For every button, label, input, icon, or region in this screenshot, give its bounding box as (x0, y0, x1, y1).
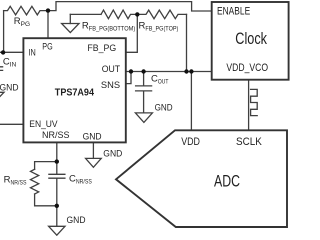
svg-text:GND: GND (67, 215, 86, 226)
svg-text:SCLK: SCLK (236, 136, 262, 148)
capacitor C_IN (cropped at left edge) (0, 67, 3, 71)
IC TPS7A94 block (23, 38, 125, 142)
svg-text:PG: PG (42, 41, 52, 52)
wire: Clock to ADC SCLK (248, 80, 250, 131)
node: NR/SS top junction (55, 159, 59, 163)
wire: FB_PG pin stub (126, 14, 138, 52)
svg-text:EN_UV: EN_UV (29, 119, 58, 130)
capacitor C_NR/SS (49, 162, 65, 206)
svg-text:VDD_VCO: VDD_VCO (226, 62, 268, 74)
svg-text:VDD: VDD (181, 136, 200, 148)
node: IN / C_IN junction (1, 50, 5, 54)
wire: SNS pin step (126, 72, 131, 84)
wire: OUT rail to Clock VDD_VCO (126, 71, 212, 73)
svg-text:GND: GND (0, 82, 19, 93)
wire: R_FB_PG(TOP) down to OUT rail (186, 14, 188, 71)
wire: PG node to Clock ENABLE (48, 2, 212, 11)
svg-text:SNS: SNS (101, 80, 120, 91)
svg-text:GND: GND (155, 102, 173, 113)
svg-text:GND: GND (103, 148, 122, 159)
wire: parallel combo top link (35, 162, 57, 170)
wire: TPS7A94 GND pin drop (92, 142, 94, 158)
svg-text:NR/SS: NR/SS (42, 130, 70, 141)
svg-text:ADC: ADC (214, 173, 240, 191)
svg-text:IN: IN (29, 47, 36, 58)
node: NR/SS bottom junction (55, 204, 59, 208)
svg-text:FB_PG: FB_PG (87, 43, 116, 54)
wire: OUT rail down to ADC VDD (190, 72, 192, 131)
wire: parallel combo bottom link (35, 194, 57, 206)
resistor R_FB_PG(BOTTOM) (101, 10, 137, 19)
node: R_PG / PG junction (46, 8, 50, 12)
wire: left vertical from R_PG to IN node (3, 11, 5, 53)
ground (C_OUT) (135, 113, 152, 123)
svg-text:Clock: Clock (235, 30, 267, 48)
svg-text:ENABLE: ENABLE (217, 6, 250, 18)
resistor R_PG (4, 6, 48, 15)
Clock block (212, 2, 289, 80)
clock-signal squiggle symbol (251, 89, 258, 115)
ground (TPS7A94 GND) (86, 158, 102, 167)
wire: IN pin (0, 51, 23, 53)
wire: bottom gnd lead (56, 206, 58, 227)
resistor R_FB_PG(TOP) (137, 10, 186, 19)
ground (R_FB_PG bottom) (69, 14, 71, 23)
wire: NR/SS pin drop (56, 142, 58, 161)
svg-text:OUT: OUT (102, 64, 121, 75)
node: OUT / SNS junction (129, 69, 133, 73)
node: OUT / ADC VDD junction (189, 69, 193, 73)
svg-text:TPS7A94: TPS7A94 (55, 87, 95, 98)
wire: EN_UV pin (0, 123, 23, 125)
capacitor C_OUT (136, 72, 152, 113)
ground (C_IN, cropped) (0, 92, 4, 101)
node: feedback divider junction (135, 12, 139, 16)
wire: gnd to R_FB_PG(BOTTOM) (70, 13, 101, 15)
wire: PG pin drop (47, 11, 49, 39)
node: OUT / FB top junction (184, 69, 188, 73)
resistor R_NR/SS (31, 169, 39, 194)
node: OUT / C_OUT junction (141, 69, 145, 73)
svg-text:GND: GND (83, 132, 102, 143)
ground (NR/SS bottom) (49, 226, 65, 235)
ADC block (pentagon) (116, 130, 287, 227)
